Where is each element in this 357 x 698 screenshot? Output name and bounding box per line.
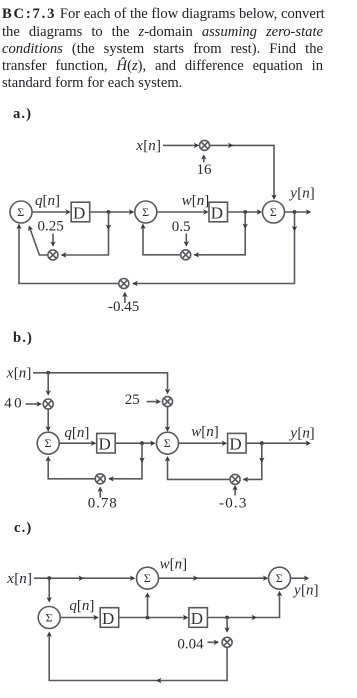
mid arrowhead down on tap [243,224,248,229]
multiplier gain 40 [43,399,53,409]
wire U6 to D5 [60,617,94,619]
wire x[n] top rail [33,373,168,390]
node x[n] (c) [6,571,32,587]
arrow from 16 into multiplier [203,159,205,163]
arrowhead into U7 [130,576,135,581]
svg-text:x: x [6,365,14,381]
node w[n] (c) [160,556,188,572]
node w[n] (a) [182,193,210,209]
svg-text:D: D [102,609,114,628]
wire U4 to D3 [59,442,92,444]
wire D2 to summer U3 [228,211,259,213]
svg-text:Σ: Σ [17,205,24,219]
wire D3 to summer U5 [115,442,152,444]
svg-text:x: x [135,138,143,154]
summer U8 (c) [269,567,291,589]
multiplier gain 25 [163,397,173,407]
arrow from 0.78 into multiplier [99,491,101,498]
wire gain -0.3 to U5 bottom [168,459,231,480]
delay D4 [228,433,247,453]
svg-text:Σ: Σ [164,436,171,450]
delay D6 [189,608,208,628]
wire D4 to output y[n] [246,442,307,444]
svg-text:-0.3: -0.3 [219,496,248,512]
svg-text:Σ: Σ [45,436,52,450]
wire gain 40 to summer U4 [47,409,49,428]
arrowhead into U5 [150,441,155,446]
wire U1 to D1 [32,211,66,213]
wire U5 to D4 [179,442,224,444]
summer U4 (b) [37,432,59,454]
arrowhead into gain 25 from top [165,389,170,394]
wire gain 0.78 to U4 bottom [48,459,95,479]
multiplier gain 16 [200,140,210,150]
svg-text:n: n [206,424,214,440]
multiplier gain 0.25 [48,250,58,260]
svg-text:w: w [182,193,192,209]
node y[n] (c) [292,582,319,598]
arrowhead into D6 [183,615,188,620]
arrowhead into U1 from bottom rail [16,224,21,229]
wire x[n] to summer U7 [34,577,132,579]
multiplier gain -0.3 [230,474,240,484]
node y[n] (b) [288,426,314,442]
wire J7 up to summer U7 [147,596,149,618]
mid arrowhead on x wire [79,576,84,581]
delay D5 [100,608,119,628]
problem statement paragraph [2,6,323,92]
arrowhead into gain 0.04 from top [224,627,229,632]
svg-text:x: x [6,571,14,587]
multiplier gain -0.45 [119,279,129,289]
wire tap J8 down to gain 0.04 [226,618,228,629]
junction J5 [260,441,264,445]
wire gain 0.5 to U2 bottom [143,228,181,255]
arrowhead into U7 bottom [145,592,150,597]
node w[n] (b) [191,424,219,440]
delay D2 [209,202,228,222]
node x[n] (b) [6,365,32,381]
mid arrowhead on wire [228,143,233,148]
svg-text:D: D [229,435,241,454]
wire feedback J3 down to bottom rail [133,212,295,284]
svg-text:D: D [191,609,203,628]
svg-text:]: ] [314,582,319,598]
svg-text:]: ] [214,424,219,440]
svg-text:n: n [82,598,90,614]
svg-text:n: n [48,193,56,209]
svg-text:n: n [197,193,205,209]
svg-text:n: n [19,571,27,587]
svg-text:]: ] [84,425,89,441]
wire x[n] to gain 16 [163,144,196,146]
wire U3 to output [285,211,307,213]
junction J1 [107,210,111,214]
delay D1 [71,202,90,222]
wire tap J2 down-left to gain 0.5 [194,212,245,255]
multiplier gain 0.5 [181,250,191,260]
wire U7 to summer U8 [159,577,265,579]
arrowhead into D1 [65,209,70,214]
part label c.) [14,520,32,537]
summer U3 (a) [263,201,285,223]
arrow from 0.5 into multiplier [185,234,187,243]
arrow from 0.04 into multiplier [208,641,215,643]
output arrowhead y[n] (c) [304,576,309,581]
svg-text:]: ] [55,193,60,209]
arrowhead into D5 [93,615,98,620]
svg-text:25: 25 [125,392,140,408]
arrowhead into gain 0.25 [61,252,66,257]
svg-text:D: D [99,435,111,454]
mid arrowhead down on tap [259,458,264,463]
summer U1 (a) [10,201,32,223]
multiplier gain 0.78 [95,474,105,484]
junction J2 [243,210,247,214]
arrow from 0.25 into multiplier [52,234,54,243]
arrowhead into U4 top [46,426,51,431]
arrowhead into U2 from 0.5 path [140,224,145,229]
svg-text:y: y [288,186,297,202]
mid arrowhead down on tap [106,225,111,230]
svg-text:D: D [73,203,85,222]
part label b.) [13,330,33,347]
wire gain 25 to summer U5 [167,407,169,428]
svg-text:n: n [175,556,183,572]
svg-text:n: n [77,425,85,441]
svg-text:0.25: 0.25 [38,219,64,235]
wire tap J4 down-left to gain 0.78 [109,443,142,479]
arrowhead into summer U3 top [271,195,276,200]
svg-text:Σ: Σ [144,571,151,585]
arrowhead into U4 from 0.78 path [46,456,51,461]
svg-text:Σ: Σ [142,205,149,219]
arrowhead into U8 bottom [277,591,282,596]
multiplier gain 0.04 [222,637,232,647]
svg-text:Σ: Σ [276,571,283,585]
svg-text:Σ: Σ [46,610,53,624]
wire tap J5 down-left to gain -0.3 [243,443,261,479]
svg-text:40: 40 [4,395,24,411]
svg-text:w: w [191,424,201,440]
arrowhead into U5 top [165,426,170,431]
svg-text:0.78: 0.78 [88,496,118,512]
arrowhead into U8 [263,576,268,581]
svg-text:16: 16 [197,162,213,178]
arrowhead into U6 top [47,597,52,602]
summer U5 (b) [157,432,179,454]
junction J3 [293,210,297,214]
svg-text:]: ] [27,571,32,587]
arrowhead into U1 from 0.25 path [28,226,33,232]
arrowhead into gain 0.5 [194,252,199,257]
svg-text:]: ] [182,556,187,572]
svg-text:n: n [19,365,27,381]
wire gain 0.04 to bottom rail and U6 [49,634,227,681]
wire U8 to output [291,577,306,579]
svg-text:Σ: Σ [270,205,277,219]
output arrowhead y[n] (b) [306,441,311,446]
svg-text:]: ] [89,598,94,614]
wire tap J1 down-left to gain 0.25 [62,212,109,255]
svg-text:-0.45: -0.45 [108,299,139,315]
arrowhead into gain 40 from top [46,390,51,395]
svg-text:]: ] [310,186,315,202]
node x[n] (a) [135,138,161,154]
arrowhead into U5 from -0.3 path [165,456,170,461]
part label a.) [13,106,32,123]
wire D5 to D6 [119,617,185,619]
arrowhead into U6 from bottom rail [47,632,52,637]
node q[n] (c) [69,598,94,614]
arrow from 25 into multiplier [147,401,157,403]
summer U2 (a) [135,201,157,223]
svg-text:]: ] [156,138,161,154]
junction J8 [225,616,229,620]
node q[n] (a) [35,193,60,209]
mid arrowhead down on feedback [292,226,297,231]
delay D3 [97,433,116,453]
svg-text:n: n [148,138,156,154]
node q[n] (b) [64,425,89,441]
arrow from 40 into multiplier [26,403,38,405]
svg-text:D: D [211,203,223,222]
wire J6 down to summer U6 [48,578,50,598]
arrowhead into gain 16 [194,143,199,148]
svg-text:y: y [288,426,297,442]
wire gain 16 to summer U3 [210,145,274,196]
svg-text:]: ] [310,426,315,442]
svg-text:0.5: 0.5 [172,219,191,235]
mid arrowhead on D6-U8 wire [252,615,257,620]
wire D6 to U8 bottom [207,595,279,618]
arrowhead into gain -0.3 [243,477,248,482]
node y[n] (a) [288,186,315,202]
wire U2 to D2 [157,211,204,213]
junction J7 [146,616,150,620]
arrow from -0.45 into multiplier [124,296,126,303]
wire -0.45 rail to U1 bottom [19,228,119,284]
svg-text:n: n [306,582,314,598]
arrowhead into D3 [91,441,96,446]
svg-text:0.04: 0.04 [177,636,204,652]
summer U7 (c) [137,567,159,589]
arrow from -0.3 into multiplier [234,489,236,495]
arrowhead into gain -0.45 [132,281,137,286]
wire D1 to summer U2 [90,211,131,213]
output arrowhead y[n] [306,209,311,214]
junction J4 [140,441,144,445]
arrowhead into D2 [203,209,208,214]
mid arrowhead left on bottom rail [156,678,161,683]
mid arrowhead down on tap [139,458,144,463]
svg-text:]: ] [26,365,31,381]
junction on x rail [46,371,50,375]
arrowhead into U2 [129,209,134,214]
svg-text:w: w [160,556,170,572]
svg-text:n: n [302,186,310,202]
mid arrowhead on U7-U8 wire [193,576,198,581]
wire gain 0.25 to U1 (diagonal) [30,229,48,255]
junction J6 [47,576,51,580]
wire junction down to gain 40 [47,373,49,391]
arrowhead into D4 [222,441,227,446]
arrowhead into gain 0.78 [108,476,113,481]
arrowhead into U3 [257,209,262,214]
summer U6 (c) [38,607,60,629]
svg-text:y: y [292,582,301,598]
